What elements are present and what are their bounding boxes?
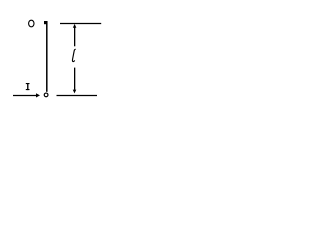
dimension upper arrowhead — [73, 24, 77, 28]
current label I — [26, 83, 30, 90]
bottom extension line — [57, 95, 98, 97]
node dot at top of wire — [44, 21, 47, 24]
wire (vertical current-carrying conductor) — [46, 21, 48, 92]
current arrow (wire segment carrying I) — [13, 95, 37, 97]
dimension lower arrowhead — [73, 90, 77, 94]
dimension upper stem — [74, 27, 76, 46]
terminal circle (open node at bottom of wire) — [44, 93, 48, 97]
node O label — [29, 20, 34, 27]
dimension label l — [72, 49, 75, 61]
dimension lower stem — [74, 68, 76, 90]
current arrowhead — [36, 93, 40, 97]
top extension line — [60, 23, 101, 25]
